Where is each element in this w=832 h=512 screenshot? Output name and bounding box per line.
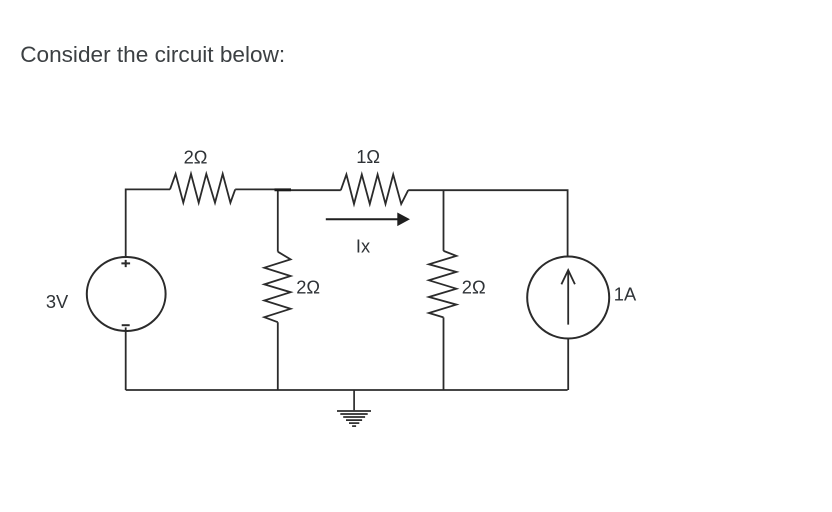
svg-text:1Ω: 1Ω xyxy=(356,146,380,167)
resistor R3 2ohm vertical zigzag xyxy=(264,252,290,323)
I1 arrow xyxy=(561,270,575,325)
wire right-middle branch upper xyxy=(443,190,445,251)
wire below voltage source xyxy=(125,327,127,390)
V1 minus sign xyxy=(122,324,130,326)
bottom wire xyxy=(126,389,568,391)
svg-text:3V: 3V xyxy=(46,291,69,312)
resistor R1 2ohm horizontal zigzag xyxy=(170,174,235,203)
resistor R2 1ohm horizontal zigzag xyxy=(341,175,408,205)
svg-text:2Ω: 2Ω xyxy=(462,277,486,298)
svg-text:Ix: Ix xyxy=(356,235,370,256)
current source I1 circle xyxy=(527,257,609,339)
node A junction tick xyxy=(275,188,292,191)
svg-text:2Ω: 2Ω xyxy=(184,146,208,167)
ground xyxy=(337,390,371,426)
V1 plus sign xyxy=(121,260,130,267)
wire below current source xyxy=(567,338,569,390)
wire middle branch lower xyxy=(277,322,279,390)
wire middle branch upper xyxy=(277,190,279,252)
wire R2 to top-right corner down to current source xyxy=(408,190,567,256)
svg-text:2Ω: 2Ω xyxy=(296,276,320,297)
resistor R4 2ohm vertical zigzag xyxy=(429,251,457,318)
wire R1 to node A xyxy=(235,188,278,190)
svg-text:Consider the circuit below:: Consider the circuit below: xyxy=(20,42,285,67)
wire right-middle branch lower xyxy=(443,317,445,390)
Ix current arrow xyxy=(326,213,409,225)
wire node A to R2 xyxy=(278,189,341,191)
svg-text:1A: 1A xyxy=(614,283,637,304)
voltage source V1 circle xyxy=(87,257,166,331)
wire top-left segment with left corner xyxy=(126,189,170,257)
